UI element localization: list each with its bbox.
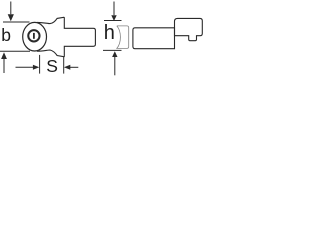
dimension S left leader with arrow (16, 66, 34, 68)
plug side view (small rect) with locking pin nub (175, 18, 203, 40)
shank side view (big rect) (133, 28, 175, 49)
dimension S extension line right (63, 57, 65, 74)
dimension b top extension line (3, 21, 30, 23)
inner ring (hex hole) (28, 30, 39, 41)
dimension h down arrow (113, 2, 115, 16)
svg-text:h: h (104, 22, 115, 44)
svg-text:b: b (1, 25, 11, 45)
center slot (33, 33, 35, 39)
dimension S right leader with arrow (70, 66, 79, 68)
ring head ellipse (23, 22, 47, 51)
shank outline: neck, flange, plug (37, 17, 95, 56)
ring slab (side view of ring head) (117, 26, 129, 49)
dimension h top extension line (104, 20, 122, 22)
svg-text:S: S (46, 56, 58, 76)
dimension b bottom extension line (0, 50, 30, 52)
dimension S extension line left (39, 55, 41, 74)
dimension h bottom extension line (103, 49, 122, 51)
dimension b up arrow (1, 52, 7, 59)
dimension h up arrow (112, 51, 117, 57)
dimension b down arrow (10, 2, 12, 15)
